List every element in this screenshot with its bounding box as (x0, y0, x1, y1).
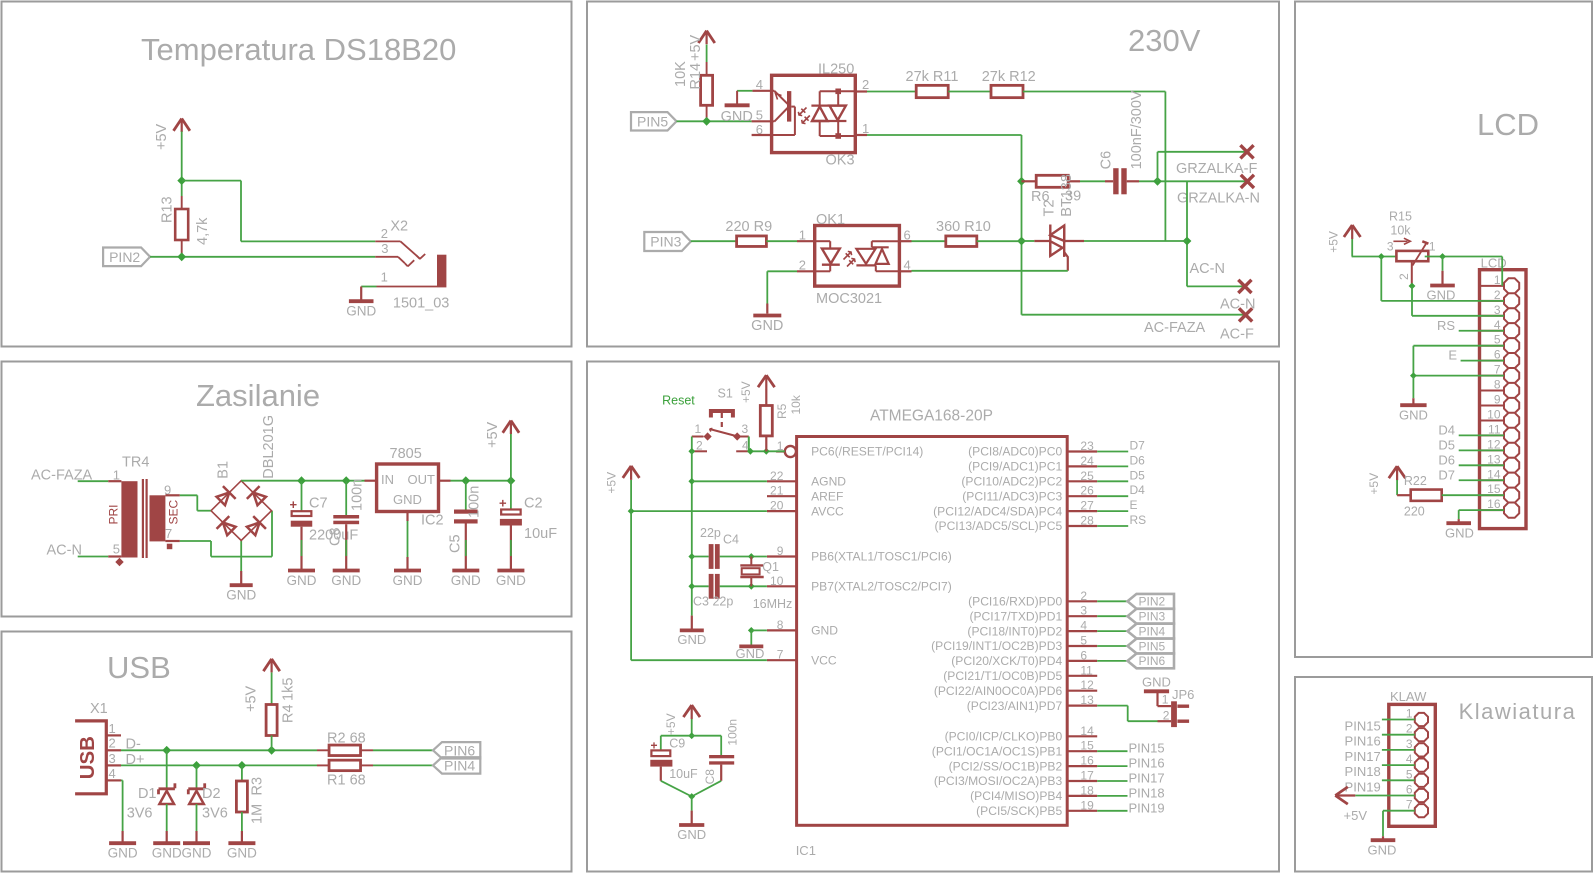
svg-text:10k: 10k (789, 394, 803, 414)
svg-text:PIN17: PIN17 (1345, 749, 1381, 764)
svg-text:X1: X1 (90, 701, 108, 717)
svg-text:GND: GND (393, 573, 423, 588)
svg-text:GRZALKA-F: GRZALKA-F (1176, 161, 1258, 177)
svg-text:3: 3 (1406, 737, 1413, 751)
svg-text:PIN17: PIN17 (1129, 771, 1165, 786)
svg-text:D4: D4 (1438, 422, 1455, 437)
svg-text:1: 1 (1406, 707, 1413, 721)
svg-text:5: 5 (1406, 767, 1413, 781)
svg-text:PIN5: PIN5 (1139, 639, 1166, 653)
svg-text:(PCI18/INT0)PD2: (PCI18/INT0)PD2 (967, 624, 1062, 638)
svg-text:2: 2 (1080, 589, 1087, 603)
svg-text:R4: R4 (281, 704, 297, 723)
svg-text:C9: C9 (669, 737, 685, 751)
svg-text:2: 2 (862, 77, 869, 92)
svg-text:+: + (499, 496, 507, 511)
svg-text:25: 25 (1080, 469, 1094, 483)
svg-text:GND: GND (227, 846, 257, 861)
svg-text:4: 4 (1494, 318, 1501, 332)
svg-text:Klawiatura: Klawiatura (1459, 699, 1577, 724)
svg-text:GND: GND (226, 588, 256, 603)
svg-text:GND: GND (287, 573, 317, 588)
svg-text:27k R11: 27k R11 (906, 69, 959, 85)
svg-text:R1 68: R1 68 (327, 772, 366, 788)
svg-text:1: 1 (381, 270, 388, 285)
svg-text:ATMEGA168-20P: ATMEGA168-20P (870, 408, 993, 425)
svg-text:MOC3021: MOC3021 (816, 291, 882, 307)
svg-text:D5: D5 (1130, 468, 1146, 482)
svg-text:R14: R14 (688, 63, 704, 90)
svg-text:220: 220 (1404, 504, 1425, 518)
svg-text:(PCI5/SCK)PB5: (PCI5/SCK)PB5 (976, 804, 1062, 818)
svg-text:PIN3: PIN3 (650, 234, 681, 250)
svg-text:360 R10: 360 R10 (936, 219, 991, 235)
svg-text:GND: GND (108, 846, 138, 861)
svg-text:(PCI11/ADC3)PC3: (PCI11/ADC3)PC3 (962, 489, 1062, 503)
svg-text:+: + (290, 497, 298, 512)
svg-text:GND: GND (677, 632, 706, 647)
svg-text:(PCI9/ADC1)PC1: (PCI9/ADC1)PC1 (968, 460, 1062, 474)
svg-text:+5V: +5V (154, 123, 170, 150)
svg-text:PIN6: PIN6 (444, 742, 475, 758)
svg-text:4: 4 (1406, 752, 1413, 766)
svg-text:OK1: OK1 (816, 212, 845, 228)
svg-text:PIN6: PIN6 (1139, 654, 1166, 668)
svg-text:16MHz: 16MHz (753, 597, 793, 611)
svg-text:19: 19 (1080, 798, 1094, 812)
svg-text:3: 3 (1080, 604, 1087, 618)
svg-text:2: 2 (1494, 288, 1501, 302)
svg-text:15: 15 (1080, 739, 1094, 753)
svg-text:IC1: IC1 (796, 843, 816, 858)
svg-text:16: 16 (1080, 754, 1094, 768)
svg-text:10K: 10K (673, 61, 689, 87)
svg-text:Reset: Reset (662, 394, 695, 408)
svg-text:27: 27 (1080, 499, 1094, 513)
svg-text:(PCI2/SS/OC1B)PB2: (PCI2/SS/OC1B)PB2 (949, 759, 1063, 773)
svg-text:PIN15: PIN15 (1345, 719, 1381, 734)
svg-text:DBL201G: DBL201G (261, 415, 277, 479)
svg-text:C5: C5 (448, 534, 464, 553)
svg-text:C8: C8 (328, 527, 344, 546)
svg-text:Temperatura DS18B20: Temperatura DS18B20 (141, 32, 456, 67)
svg-text:100n: 100n (467, 486, 483, 518)
svg-text:17: 17 (1080, 769, 1094, 783)
svg-text:2: 2 (696, 439, 703, 453)
svg-text:GND: GND (496, 573, 526, 588)
svg-text:+5V: +5V (1326, 231, 1340, 253)
svg-text:OK3: OK3 (826, 153, 855, 169)
svg-text:(PCI8/ADC0)PC0: (PCI8/ADC0)PC0 (968, 445, 1062, 459)
svg-text:27k R12: 27k R12 (982, 69, 1036, 85)
svg-text:3: 3 (1387, 240, 1394, 254)
svg-text:5: 5 (113, 542, 120, 557)
svg-text:1501_03: 1501_03 (393, 296, 449, 312)
svg-text:D7: D7 (1130, 439, 1146, 453)
svg-text:AREF: AREF (811, 489, 843, 503)
svg-text:12: 12 (1080, 678, 1094, 692)
svg-text:KLAW: KLAW (1390, 689, 1427, 704)
svg-text:GND: GND (346, 304, 376, 319)
svg-text:1: 1 (109, 721, 116, 736)
svg-text:+5V: +5V (1367, 473, 1381, 495)
svg-text:(PCI16/RXD)PD0: (PCI16/RXD)PD0 (968, 595, 1062, 609)
svg-text:+: + (650, 739, 657, 753)
svg-text:13: 13 (1487, 452, 1501, 466)
svg-text:D6: D6 (1130, 453, 1146, 467)
svg-text:+5V: +5V (244, 685, 260, 712)
svg-text:5: 5 (756, 108, 763, 123)
svg-text:C3 22p: C3 22p (693, 595, 733, 609)
svg-text:IL250: IL250 (818, 62, 854, 78)
svg-text:24: 24 (1080, 454, 1094, 468)
svg-text:1: 1 (799, 228, 806, 243)
svg-text:PIN19: PIN19 (1345, 779, 1381, 794)
svg-text:(PCI19/INT1/OC2B)PD3: (PCI19/INT1/OC2B)PD3 (931, 639, 1062, 653)
svg-text:7: 7 (1406, 798, 1413, 812)
svg-text:PIN15: PIN15 (1129, 741, 1165, 756)
svg-text:1k5: 1k5 (281, 678, 297, 701)
svg-text:PIN3: PIN3 (1139, 610, 1166, 624)
svg-text:GND: GND (182, 846, 212, 861)
svg-text:GND: GND (1445, 526, 1474, 541)
svg-text:100nF/300V: 100nF/300V (1129, 90, 1145, 169)
svg-text:(PCI17/TXD)PD1: (PCI17/TXD)PD1 (969, 609, 1062, 623)
svg-text:BT138: BT138 (1059, 174, 1075, 217)
svg-text:C7: C7 (309, 496, 328, 512)
svg-text:4: 4 (109, 766, 116, 781)
svg-text:2: 2 (1397, 273, 1411, 280)
svg-text:IN: IN (381, 472, 394, 487)
svg-text:LCD: LCD (1477, 107, 1539, 142)
svg-text:5: 5 (1494, 333, 1501, 347)
svg-text:1: 1 (695, 422, 702, 436)
svg-text:PIN16: PIN16 (1129, 756, 1165, 771)
svg-text:JP6: JP6 (1172, 687, 1194, 702)
svg-text:2: 2 (381, 226, 388, 241)
svg-text:B1: B1 (216, 461, 232, 479)
svg-text:18: 18 (1080, 783, 1094, 797)
svg-text:R3: R3 (250, 777, 266, 796)
svg-text:(PCI13/ADC5/SCL)PC5: (PCI13/ADC5/SCL)PC5 (934, 519, 1062, 533)
svg-text:C4: C4 (723, 533, 739, 547)
svg-text:11: 11 (1080, 663, 1093, 677)
svg-text:PIN5: PIN5 (637, 113, 668, 129)
svg-text:(PCI1/OC1A/OC1S)PB1: (PCI1/OC1A/OC1S)PB1 (932, 744, 1063, 758)
svg-text:GND: GND (751, 318, 783, 334)
svg-text:D2: D2 (202, 786, 221, 802)
svg-text:E: E (1448, 348, 1457, 363)
svg-text:15: 15 (1487, 482, 1501, 496)
svg-text:6: 6 (1080, 648, 1087, 662)
svg-text:Zasilanie: Zasilanie (196, 378, 320, 413)
svg-text:AC-F: AC-F (1220, 327, 1254, 343)
svg-text:4: 4 (756, 77, 763, 92)
svg-text:3: 3 (109, 751, 116, 766)
svg-text:10: 10 (1487, 407, 1501, 421)
svg-text:3V6: 3V6 (127, 806, 153, 822)
svg-text:+5V: +5V (739, 381, 753, 403)
svg-text:GND: GND (1399, 408, 1428, 423)
svg-text:R13: R13 (160, 196, 176, 223)
svg-text:220 R9: 220 R9 (725, 219, 772, 235)
svg-text:R2 68: R2 68 (327, 731, 366, 747)
svg-text:PIN4: PIN4 (444, 757, 475, 773)
svg-text:7: 7 (165, 526, 172, 541)
svg-text:3: 3 (742, 422, 749, 436)
svg-text:(PCI3/MOSI/OC2A)PB3: (PCI3/MOSI/OC2A)PB3 (934, 774, 1063, 788)
svg-text:GND: GND (1368, 843, 1397, 858)
svg-text:GND: GND (721, 109, 753, 125)
svg-text:+5V: +5V (688, 34, 704, 61)
svg-text:1M: 1M (250, 804, 266, 824)
svg-text:6: 6 (1406, 783, 1413, 797)
svg-text:+5V: +5V (664, 713, 678, 735)
svg-text:3: 3 (1494, 303, 1501, 317)
svg-text:R22: R22 (1404, 474, 1427, 488)
svg-text:E: E (1130, 498, 1138, 512)
svg-text:7: 7 (1494, 363, 1501, 377)
svg-text:GND: GND (677, 827, 706, 842)
svg-text:12: 12 (1487, 437, 1501, 451)
svg-text:6: 6 (1494, 348, 1501, 362)
svg-text:PIN18: PIN18 (1129, 785, 1165, 800)
svg-text:(PCI10/ADC2)PC2: (PCI10/ADC2)PC2 (961, 475, 1062, 489)
svg-text:PIN16: PIN16 (1345, 734, 1381, 749)
svg-text:1: 1 (862, 121, 869, 136)
svg-text:(PCI12/ADC4/SDA)PC4: (PCI12/ADC4/SDA)PC4 (933, 504, 1062, 518)
svg-text:SEC: SEC (167, 499, 181, 524)
svg-text:GND: GND (152, 846, 182, 861)
svg-text:22: 22 (770, 469, 784, 483)
svg-text:GRZALKA-N: GRZALKA-N (1177, 191, 1260, 207)
svg-text:R5: R5 (775, 403, 789, 419)
svg-text:(PCI0/ICP/CLKO)PB0: (PCI0/ICP/CLKO)PB0 (945, 730, 1063, 744)
svg-text:PRI: PRI (107, 504, 121, 524)
svg-text:PIN18: PIN18 (1345, 764, 1381, 779)
svg-text:Q1: Q1 (762, 560, 779, 574)
svg-text:3: 3 (381, 241, 388, 256)
svg-text:2: 2 (1163, 708, 1170, 722)
svg-text:+5V: +5V (1344, 808, 1368, 823)
svg-text:USB: USB (107, 650, 171, 685)
svg-text:4,7k: 4,7k (195, 217, 211, 245)
svg-text:9: 9 (777, 544, 784, 558)
svg-text:1: 1 (1494, 273, 1501, 287)
svg-text:20: 20 (770, 499, 784, 513)
svg-text:100n: 100n (350, 479, 366, 511)
svg-text:13: 13 (1080, 693, 1094, 707)
svg-text:AC-N: AC-N (1190, 261, 1225, 277)
svg-text:PC6(/RESET/PCI14): PC6(/RESET/PCI14) (811, 445, 923, 459)
svg-text:(PCI20/XCK/T0)PD4: (PCI20/XCK/T0)PD4 (951, 654, 1062, 668)
svg-text:PIN2: PIN2 (109, 249, 140, 265)
svg-text:GND: GND (331, 573, 361, 588)
svg-text:D1: D1 (138, 786, 157, 802)
svg-text:S1: S1 (718, 387, 733, 401)
svg-text:GND: GND (393, 492, 422, 507)
svg-text:PIN4: PIN4 (1139, 624, 1166, 638)
svg-text:230V: 230V (1128, 23, 1201, 58)
svg-text:14: 14 (1487, 467, 1501, 481)
svg-text:PIN19: PIN19 (1129, 800, 1165, 815)
svg-text:10uF: 10uF (669, 767, 698, 781)
svg-text:(PCI4/MISO)PB4: (PCI4/MISO)PB4 (970, 789, 1062, 803)
svg-text:(PCI21/T1/OC0B)PD5: (PCI21/T1/OC0B)PD5 (943, 669, 1062, 683)
svg-text:+5V: +5V (485, 421, 501, 448)
svg-text:11: 11 (1488, 422, 1501, 436)
svg-text:2: 2 (109, 736, 116, 751)
svg-text:GND: GND (811, 624, 838, 638)
svg-text:100n: 100n (726, 719, 740, 746)
svg-text:D6: D6 (1438, 452, 1455, 467)
svg-text:VCC: VCC (811, 653, 837, 667)
svg-text:10uF: 10uF (524, 526, 557, 542)
svg-text:2: 2 (1406, 722, 1413, 736)
svg-text:PIN2: PIN2 (1139, 595, 1166, 609)
svg-text:PB7(XTAL2/TOSC2/PCI7): PB7(XTAL2/TOSC2/PCI7) (811, 580, 952, 594)
svg-text:7805: 7805 (390, 446, 422, 462)
svg-text:10: 10 (770, 574, 784, 588)
svg-text:R15: R15 (1389, 210, 1412, 224)
svg-text:14: 14 (1080, 724, 1094, 738)
svg-text:C8: C8 (703, 769, 717, 785)
svg-text:GND: GND (736, 646, 765, 661)
svg-text:23: 23 (1080, 439, 1094, 453)
svg-text:AVCC: AVCC (811, 504, 844, 518)
svg-text:+5V: +5V (605, 472, 619, 494)
svg-text:USB: USB (76, 736, 99, 779)
svg-text:GND: GND (1142, 675, 1171, 690)
svg-text:7: 7 (777, 648, 784, 662)
svg-text:T2: T2 (1042, 200, 1058, 217)
svg-text:21: 21 (770, 484, 784, 498)
svg-text:D5: D5 (1438, 437, 1455, 452)
svg-text:D4: D4 (1130, 483, 1146, 497)
svg-text:4: 4 (1080, 619, 1087, 633)
svg-text:(PCI22/AIN0OC0A)PD6: (PCI22/AIN0OC0A)PD6 (934, 684, 1063, 698)
svg-text:C6: C6 (1099, 151, 1115, 170)
svg-text:8: 8 (777, 618, 784, 632)
svg-text:5: 5 (1080, 634, 1087, 648)
svg-text:C2: C2 (524, 496, 543, 512)
svg-text:16: 16 (1487, 497, 1501, 511)
svg-text:GND: GND (451, 573, 481, 588)
svg-text:PB6(XTAL1/TOSC1/PCI6): PB6(XTAL1/TOSC1/PCI6) (811, 550, 952, 564)
svg-text:9: 9 (1494, 393, 1501, 407)
svg-text:28: 28 (1080, 514, 1094, 528)
svg-text:IC2: IC2 (421, 513, 444, 529)
svg-text:AGND: AGND (811, 475, 846, 489)
svg-text:1: 1 (1429, 239, 1436, 253)
svg-text:D7: D7 (1438, 467, 1455, 482)
svg-text:(PCI23/AIN1)PD7: (PCI23/AIN1)PD7 (967, 699, 1063, 713)
svg-text:26: 26 (1080, 484, 1094, 498)
svg-text:RS: RS (1130, 513, 1147, 527)
svg-text:RS: RS (1437, 318, 1455, 333)
svg-text:AC-FAZA: AC-FAZA (1144, 320, 1206, 336)
svg-text:AC-N: AC-N (47, 543, 82, 559)
svg-text:22p: 22p (700, 526, 721, 540)
svg-text:TR4: TR4 (122, 455, 149, 471)
svg-text:OUT: OUT (408, 472, 436, 487)
svg-text:X2: X2 (390, 219, 408, 235)
svg-text:3V6: 3V6 (202, 806, 228, 822)
svg-text:8: 8 (1494, 378, 1501, 392)
svg-text:1: 1 (1162, 693, 1169, 707)
svg-text:10k: 10k (1390, 224, 1411, 238)
